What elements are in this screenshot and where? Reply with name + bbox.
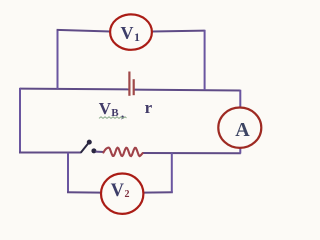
svg-text:V: V [121,23,134,43]
wire: middle horizontal left (battery left lead) [20,88,129,91]
svg-text:V: V [99,99,112,118]
wire: V1 branch right vertical [204,30,206,90]
battery VB: long plate [128,72,130,96]
wire: right vertical above ammeter [239,90,241,108]
wire: V1 top wire left segment [57,30,111,32]
voltmeter V1 circle [110,14,152,49]
wire: middle horizontal right (battery right lead) [134,89,241,92]
wire: right vertical below ammeter [239,148,241,154]
wire: stub from switch contact to resistor [96,151,105,153]
voltmeter V2 circle [101,174,143,214]
wire: bottom horizontal from resistor to right corner [142,152,240,154]
ammeter A circle [218,108,261,148]
wire: V2 bottom wire right segment [143,191,173,193]
wire: V1 branch left vertical [57,30,59,89]
wire: outer loop left vertical [19,88,21,154]
wire: V2 bottom wire left segment [67,191,101,193]
switch S lever [81,143,89,153]
wire: V1 top wire right segment [152,30,205,33]
switch S lever-end dot [87,140,92,145]
svg-text:2: 2 [125,189,130,200]
svg-text:r: r [145,98,153,117]
svg-text:1: 1 [134,30,140,44]
switch S fixed-contact dot [91,148,96,153]
wire: bottom horizontal from left corner to switch hinge [19,152,81,154]
svg-text:V: V [111,181,125,201]
wire: V2 branch right vertical [171,153,173,193]
grammar squiggle under VB [99,117,127,119]
svg-text:A: A [235,119,250,141]
wire: V2 branch left vertical [67,153,69,193]
battery VB: short plate [133,79,135,95]
resistor R zigzag [103,148,142,157]
